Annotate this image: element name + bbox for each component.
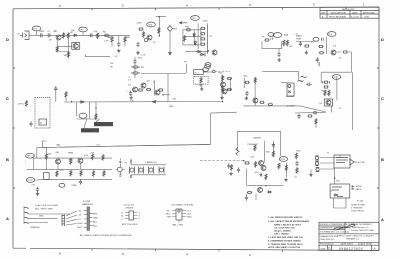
label [294,177,297,179]
svg-text:NOTE: SEE SHEET 2 FOR PCB: NOTE: SEE SHEET 2 FOR PCB [268,247,300,249]
resistor R26 [337,51,352,53]
svg-text:4. UNMARKED DIODES 1N4004: 4. UNMARKED DIODES 1N4004 [268,240,301,243]
svg-text:APPROVED: APPROVED [363,12,376,15]
node [71,101,73,103]
wire [129,64,143,79]
label SPKR [356,186,362,191]
svg-text:PRM: PRM [72,185,77,187]
capacitor C7 [271,38,273,40]
svg-text:TP11: TP11 [27,156,33,158]
svg-text:OUT: OUT [187,214,192,216]
wire [245,169,247,186]
svg-text:SCALE NONE: SCALE NONE [358,243,373,246]
transistor Q8 [141,83,146,88]
svg-text:22K: 22K [91,153,95,155]
svg-text:A5A: A5A [284,34,289,37]
wire corner [350,52,352,72]
inductor L1 [318,62,321,66]
capacitor C17 [29,121,32,126]
resistor R10 [132,72,139,74]
capacitor C9 [299,41,302,46]
resistor R20 [264,39,269,41]
resistor R45 [268,103,273,105]
label [169,106,174,108]
svg-text:47K: 47K [94,31,98,33]
ground [117,49,120,53]
resistor R39 [227,77,232,79]
svg-text:HARNESS: HARNESS [82,203,93,206]
svg-text:C2 = 47pF NPO ±5%: C2 = 47pF NPO ±5% [274,227,295,230]
wire [29,222,49,224]
caption [124,205,135,210]
svg-text:ORN: ORN [93,217,98,219]
svg-text:LM3886: LM3886 [253,138,262,140]
label TR [184,62,187,64]
bank rails [131,159,166,179]
svg-text:DRAWN RJM 8/99: DRAWN RJM 8/99 [320,235,339,238]
resistor R43 [254,77,256,83]
resistor R17 [200,33,205,35]
wire [255,194,257,200]
wire [169,32,171,56]
resistor R3 [97,33,99,39]
wire [336,76,338,100]
node [207,51,209,53]
label [141,55,146,57]
wire [331,106,333,112]
svg-text:REVISIONS: REVISIONS [342,9,354,11]
svg-text:BLU: BLU [93,222,98,224]
dashed bus [200,160,244,162]
resistor R24 [318,45,323,47]
svg-text:BOTTOM VIEW: BOTTOM VIEW [122,224,138,226]
resistor R7 [108,36,113,42]
capacitor C1 [39,31,43,37]
switch S2 [44,173,50,180]
svg-text:TP14: TP14 [280,159,286,161]
label A5A [284,34,299,37]
capacitor C20 [79,179,82,184]
label FUSE [357,200,363,203]
transistor Q6 [319,99,333,106]
block outline U1 [238,131,281,156]
testpoint TP2 [79,27,88,35]
connector J4 pins [24,206,29,224]
diode CR9 [334,194,339,196]
connector ring [203,70,215,73]
svg-text:C: C [6,96,9,101]
label [296,35,302,41]
resistor R53 [80,170,82,176]
svg-text:MAIN: MAIN [296,35,302,38]
svg-text:4.7K: 4.7K [141,55,146,57]
svg-text:R4/R9 = SELECT AT TEST: R4/R9 = SELECT AT TEST [274,224,301,227]
wire [29,34,104,36]
label R31 [95,108,98,117]
resistor R31 [307,115,312,117]
capacitor C5 [133,57,136,64]
fuse wires [334,197,347,209]
resistor R8 [124,36,126,42]
svg-text:4880 Ramirez Ct: 4880 Ramirez Ct [352,226,369,229]
resistor R48 [95,114,97,120]
zone numbers top [59,3,365,9]
svg-text:VEE: VEE [167,217,172,219]
svg-text:CAGE 09867: CAGE 09867 [340,243,354,246]
testpoint TP13 [59,183,65,187]
svg-text:ACC: ACC [78,226,83,229]
testpoint TP10 [205,65,211,69]
wire [29,214,71,218]
zone letters left [6,37,9,221]
svg-text:DESCRIPTION: DESCRIPTION [331,13,346,15]
switch S1 [39,119,47,125]
svg-text:K2 SPK: K2 SPK [287,106,295,108]
wire right [285,163,287,177]
relay K1 [194,70,204,75]
svg-text:SIZE: SIZE [321,248,326,250]
svg-text:3. LAST REF DES USED: R61 C33: 3. LAST REF DES USED: R61 C33 [268,236,304,239]
wire top [262,71,298,80]
right labels [93,213,98,227]
testpoint TP4 [191,16,200,21]
long wire [141,73,186,75]
resistor R4 [103,32,109,37]
capacitor C25 [295,161,298,166]
resistor R32 [315,118,317,127]
resistor R25 [319,46,337,54]
label GND [39,216,44,218]
testpoint TP14 [279,157,288,162]
relay K2 [287,83,294,96]
transistor Q16 [259,161,264,166]
transistor Q12 [253,98,258,103]
svg-text:RED: RED [93,213,98,215]
label R [336,181,341,183]
capacitor C6 [136,42,139,47]
resistor R23 [304,45,309,47]
svg-text:5%: 5% [209,36,212,38]
svg-text:PREAMP 2.0: PREAMP 2.0 [346,238,360,241]
wire [225,78,231,90]
svg-text:8-12-99: 8-12-99 [351,16,359,18]
resistor R2 [67,32,73,39]
resistor R61 [254,145,256,151]
wire vertical [210,113,212,144]
resistor R49 [45,148,47,170]
diode CR3 [194,41,196,46]
wire in [185,64,187,73]
long return wire [42,141,210,148]
jack J3 [330,184,354,198]
svg-text:JACK: JACK [356,188,362,191]
caption bottom [122,224,138,226]
capacitor C15 [200,85,203,86]
connector J5 [62,215,65,227]
svg-text:P/N 09-86123: P/N 09-86123 [320,244,334,246]
svg-text:PL 1: PL 1 [195,73,200,75]
dashed enclosure [35,98,50,128]
ground [309,170,312,177]
ground [136,51,139,55]
svg-text:J4 AC LINE 120V 60HZ: J4 AC LINE 120V 60HZ [35,204,59,207]
capacitor C22 [225,163,230,168]
resistor R63 [278,163,280,169]
resistor R66 [295,153,297,159]
resistor R19 [200,43,205,45]
svg-text:A: A [6,216,9,221]
resistor R37 [222,75,224,81]
capacitor C21 [130,161,132,177]
svg-text:F1 4A: F1 4A [357,200,363,203]
node junction [156,16,166,36]
wire [221,75,223,99]
svg-text:OUT 8R: OUT 8R [357,162,365,164]
svg-text:GND: GND [187,217,192,219]
label PRM2 [72,185,77,187]
transistor Q15 [78,158,83,169]
transistor Q7 [128,85,138,93]
label [287,106,295,108]
svg-text:B: B [381,157,384,162]
label col3 [69,159,74,161]
bottom wire [247,185,283,187]
svg-text:0003(33): 0003(33) [95,124,104,126]
resistor R13 [158,27,160,33]
resistor R6 [64,51,70,57]
resistor R55 [92,170,94,176]
title block [319,222,379,251]
wire [334,168,336,184]
node [334,177,336,179]
source G3 [316,167,320,171]
svg-text:PWR AMP: PWR AMP [248,143,259,146]
ground [200,87,203,91]
wire [57,39,72,58]
resistor R65 [285,165,287,171]
resistor R29 [324,90,326,96]
pin labels [122,213,141,221]
resistor R21 [283,40,285,46]
source G1 [315,156,319,160]
svg-text:GND: GND [39,216,44,218]
bus wire [211,111,238,114]
svg-text:FIRST CLASS CIRCUITS CONCEPT: FIRST CLASS CIRCUITS CONCEPT [338,235,375,238]
zone letters right [381,37,384,222]
scribble VR1 [300,76,307,82]
resistor R9 [132,66,145,69]
svg-text:CR: CR [32,185,36,187]
svg-text:SPKR 8 OHM: SPKR 8 OHM [351,205,365,207]
svg-text:B: B [6,157,9,162]
transistor Q17 [261,166,266,171]
resistor R56 [102,154,104,160]
svg-text:1. ALL RESISTORS ARE 1/4W 5%: 1. ALL RESISTORS ARE 1/4W 5% [268,216,302,219]
fan wires [66,211,77,225]
svg-text:DWL: DWL [365,16,371,18]
jack J1 [18,31,30,40]
resistor R22 [286,40,288,46]
connector ring [314,111,317,114]
wire [326,37,328,54]
connector body [87,207,90,231]
filter F3 [149,167,154,174]
testpoint TP8 [327,32,336,37]
zone numbers bottom [59,252,251,258]
svg-text:TR: TR [184,62,187,64]
filter F1 [130,167,135,174]
wire mid [254,78,256,106]
svg-text:GND: GND [78,223,83,225]
svg-text:68K: 68K [126,37,130,39]
wire drops [77,102,97,119]
resistor R64 [265,174,267,180]
caption bottom [172,224,184,227]
svg-text:CR1 = 1N4148: CR1 = 1N4148 [274,233,289,236]
arrow node [180,22,188,24]
label [209,36,212,38]
wire [85,55,110,57]
capacitor C19 [36,187,39,196]
svg-text:D: D [6,37,9,42]
transistor Q3 [147,35,152,40]
source G2 [315,161,319,165]
resistor R47 [65,91,67,101]
wire down [351,72,353,130]
filter F4 [159,167,164,174]
wire [296,41,313,43]
resistor R28 [323,86,328,88]
testpoint TP11 [26,153,35,158]
svg-text:0901(31): 0901(31) [82,131,91,133]
svg-text:220K: 220K [137,23,143,25]
scribble [298,80,304,81]
capacitor C3 [90,33,92,37]
mark [25,161,27,163]
capacitor C26 [245,194,248,201]
transistor Q9 [153,82,160,96]
label 441 [56,152,60,154]
resistor R60 [272,151,274,157]
resistor R62 [254,161,256,167]
diode CR4 [197,50,202,52]
resistor R30 [328,90,330,96]
capacitor C18 [54,86,57,102]
svg-text:5 BAND EQ: 5 BAND EQ [145,161,157,164]
svg-text:D: D [381,37,384,42]
resistor R41 [227,88,232,90]
resistor R54 [92,154,94,160]
transistor Q1 [54,31,61,41]
zener CR7 [236,148,239,156]
resistor R27 [323,81,330,83]
ground [284,178,287,182]
resistor R38 [222,86,224,92]
resistor R59 [244,162,249,164]
capacitor C4 [117,42,120,47]
svg-text:BLK / WHT / GRN: BLK / WHT / GRN [35,209,53,211]
text [30,226,40,229]
wire grid [183,30,201,45]
capacitor C10 [322,38,324,41]
transistor Q2 [72,43,80,50]
svg-text:1M: 1M [49,40,52,42]
transistor Q13 [79,113,87,118]
capacitor C24 [272,143,275,148]
wire left [243,78,245,88]
label [110,63,113,67]
resistor R44 [259,101,264,103]
ground [305,50,308,54]
wire [154,80,156,96]
transistor Q4 [212,50,217,55]
label CR [32,185,36,187]
svg-text:A: A [374,247,376,251]
transistor Q18 [258,188,263,193]
svg-text:VCC: VCC [187,211,192,213]
wire U [262,41,282,49]
capacitor C16 [245,91,248,96]
ground [245,96,248,100]
net label AUX [81,118,100,132]
label rows [35,204,59,211]
svg-text:2. ALL CAPACITORS IN MICROFARA: 2. ALL CAPACITORS IN MICROFARADS [268,220,310,223]
node [159,35,161,37]
resistor R14 [186,29,191,31]
label PRM [68,153,73,155]
resistor R36 [200,77,202,83]
testpoint TP1 [32,26,41,35]
transistor Q3A [138,38,148,59]
svg-text:4 OHM MIN: 4 OHM MIN [351,208,363,210]
wire [207,26,209,54]
diode CR2 [193,33,195,38]
svg-text:2.2K: 2.2K [104,41,109,43]
label col5 [91,153,95,155]
component value labels [40,21,342,193]
shield box dashed [194,76,209,84]
svg-text:1w: 1w [294,177,297,179]
svg-text:CHECKED DO: CHECKED DO [320,239,335,241]
node [162,94,170,96]
capacitor C23 [237,167,240,172]
capacitor C2 [47,31,51,37]
wire [278,49,280,52]
wire [167,74,169,102]
svg-text:10K: 10K [71,30,75,32]
diode CR6 [80,101,85,103]
svg-text:PWR: PWR [296,38,302,40]
resistor R57 [103,170,105,176]
resistor R16 [200,27,205,29]
svg-text:TP12: TP12 [27,180,33,182]
resistor R18 [200,38,205,40]
diode CR5 [200,53,205,57]
transistor Q5 [331,50,336,55]
case [172,209,186,223]
node [222,101,224,103]
svg-text:U1 LM3886 / TDA7294: U1 LM3886 / TDA7294 [171,204,194,207]
ground [278,58,281,62]
node [207,50,209,52]
capacitor C13 [297,114,300,119]
transistor Q14 [56,158,61,169]
resistor R67 [296,167,298,173]
resistor R5 [56,46,58,52]
diode CR1 [73,34,78,36]
bus wire [64,101,223,104]
svg-text:ALL WIRES 22 AWG UNLESS NOTED: ALL WIRES 22 AWG UNLESS NOTED OTHERWISE [80,234,132,237]
